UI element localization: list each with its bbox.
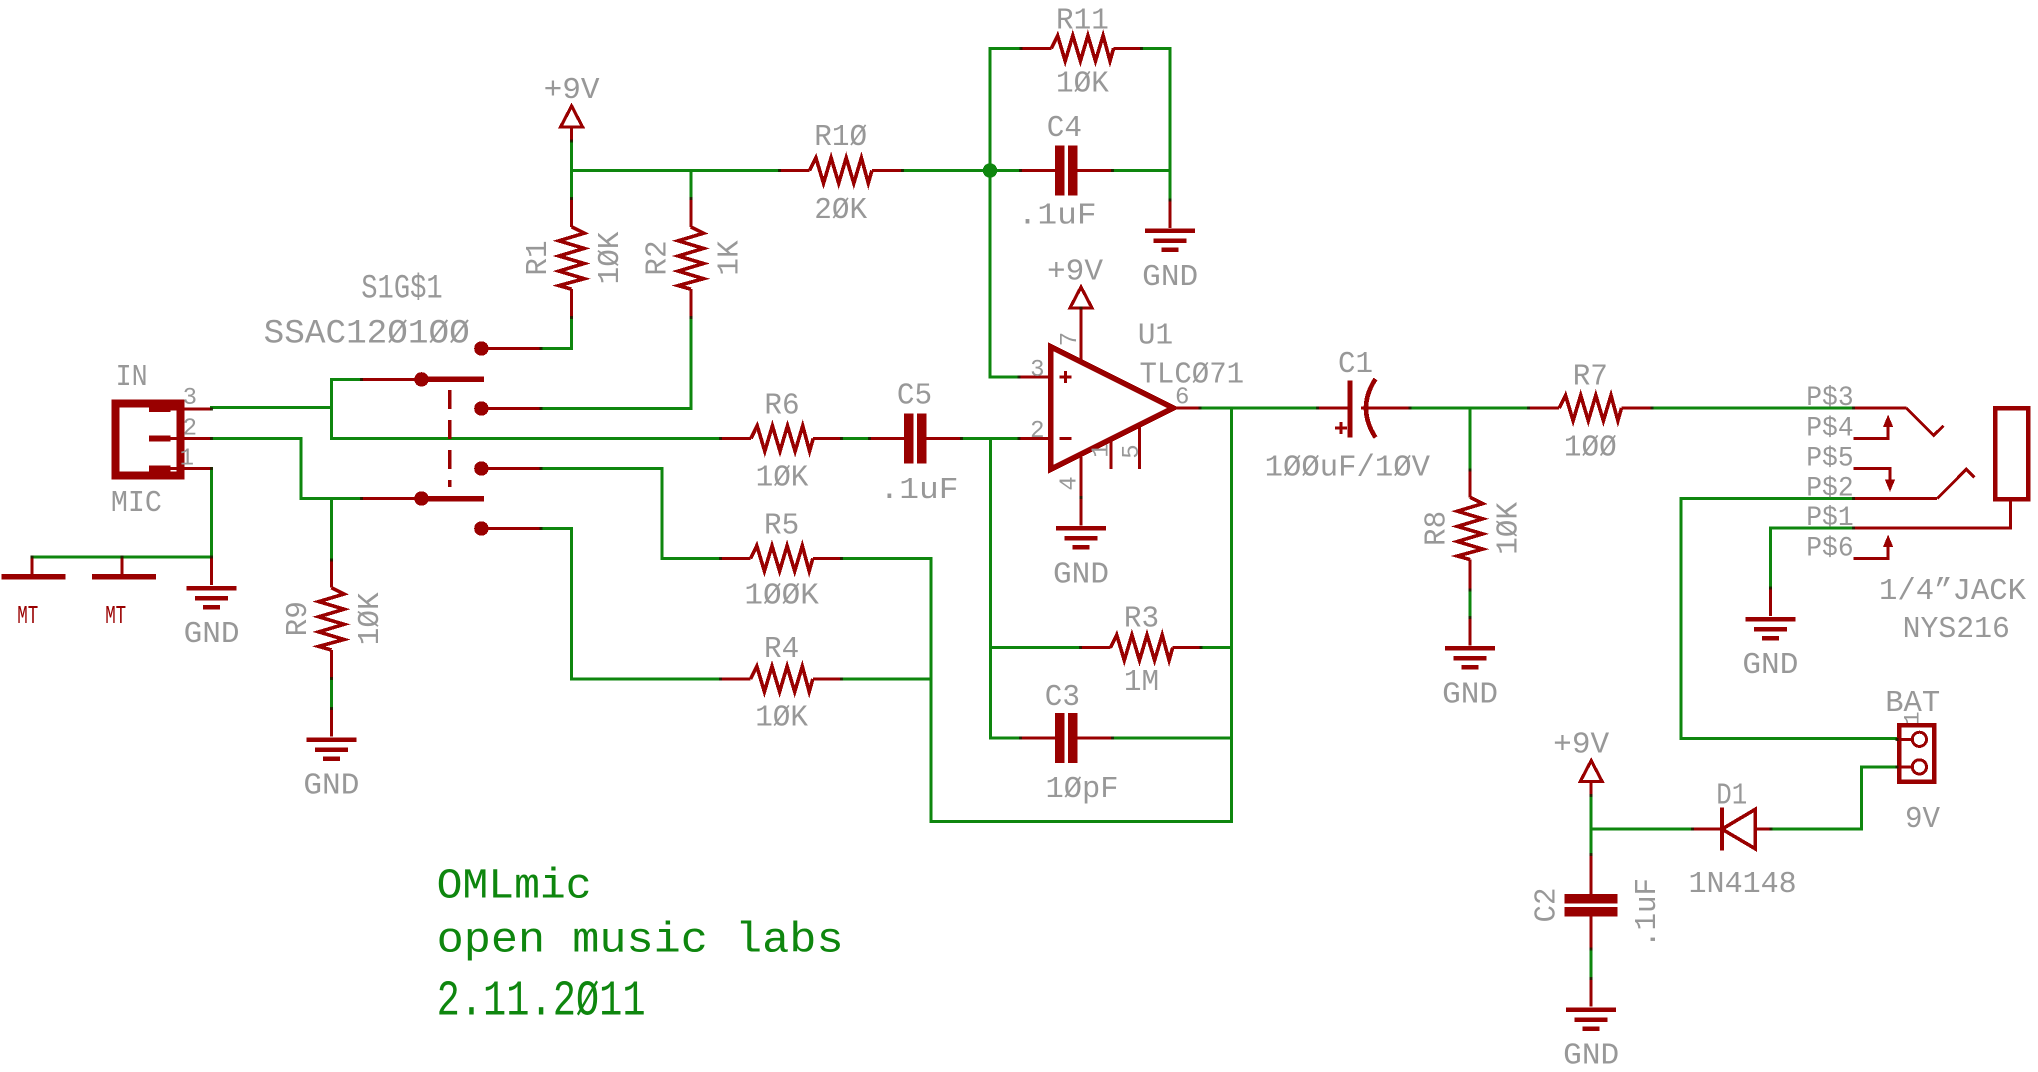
connector 1/4" jack NYS216 — [1854, 408, 2029, 647]
wire R4 right — [842, 678, 931, 681]
wire to C3 left — [991, 737, 1021, 740]
ground GND at MIC — [184, 557, 240, 652]
capacitor C2 — [1531, 855, 1665, 950]
supply +9V top left — [544, 74, 601, 141]
svg-text:C3: C3 — [1045, 681, 1080, 715]
svg-text:TLCØ71: TLCØ71 — [1140, 358, 1245, 392]
wire to R3 left — [991, 646, 1081, 649]
resistor R1 — [522, 199, 628, 318]
svg-text:C2: C2 — [1531, 888, 1565, 923]
wire +9V bus to R10 — [572, 169, 780, 172]
wire R6 to C5 — [842, 437, 870, 440]
resistor R7 — [1528, 361, 1652, 466]
svg-text:2.11.2Ø11: 2.11.2Ø11 — [437, 974, 646, 1031]
svg-text:P$5: P$5 — [1806, 443, 1853, 474]
svg-text:R1Ø: R1Ø — [814, 121, 867, 155]
wire C5 to op-amp pin2 — [961, 437, 1019, 440]
wire junction to C4 left — [990, 169, 1020, 172]
svg-text:P$3: P$3 — [1806, 383, 1853, 414]
svg-text:7: 7 — [1057, 332, 1084, 346]
wire bus drop to R2 top — [689, 171, 692, 199]
junction node at R10/R11/C4 — [983, 163, 997, 177]
svg-text:1N4148: 1N4148 — [1689, 868, 1797, 902]
ground GND jack P$1 — [1742, 588, 1798, 683]
wire C3 right — [1113, 737, 1232, 740]
ground GND op-amp pin4 — [1053, 497, 1109, 592]
svg-text:MT: MT — [17, 601, 38, 631]
wire +9V to R1 top — [570, 141, 573, 199]
connector IN MIC — [111, 361, 212, 521]
svg-text:R8: R8 — [1421, 511, 1455, 546]
svg-text:1: 1 — [1901, 711, 1926, 724]
svg-text:R5: R5 — [764, 510, 799, 544]
wire R5 right — [842, 557, 931, 560]
svg-text:P$6: P$6 — [1806, 533, 1853, 564]
wire R11 right down to GND — [1141, 48, 1170, 200]
ground GND below R9 — [303, 709, 359, 804]
wire C2 bottom to GND — [1590, 949, 1593, 979]
wire +9V node vertical — [1590, 796, 1593, 855]
svg-text:1ØK: 1ØK — [1056, 67, 1109, 101]
supply +9V op-amp pin7 — [1047, 256, 1104, 364]
svg-text:GND: GND — [1053, 558, 1109, 592]
ground GND below C4 — [1142, 200, 1198, 295]
wire R6 row left — [331, 437, 720, 440]
wire contact1 to R1 bottom — [541, 317, 572, 348]
svg-text:1K: 1K — [713, 240, 747, 276]
battery connector BAT 9V — [1885, 687, 1940, 837]
mount MT1 — [2, 557, 66, 631]
svg-text:R11: R11 — [1056, 5, 1109, 39]
wire D1 anode to +9V node — [1591, 828, 1692, 831]
svg-text:1: 1 — [180, 445, 194, 472]
resistor R10 — [780, 121, 903, 228]
svg-text:1ØK: 1ØK — [755, 701, 808, 735]
svg-text:P$4: P$4 — [1806, 413, 1853, 444]
capacitor C4 — [1018, 112, 1113, 234]
svg-text:U1: U1 — [1138, 319, 1174, 353]
svg-text:1ØØuF/1ØV: 1ØØuF/1ØV — [1265, 452, 1431, 486]
svg-text:C4: C4 — [1047, 112, 1082, 146]
wire MIC pin2 to pole2 — [212, 439, 362, 499]
op-amp U1 TLC071 — [1019, 347, 1200, 498]
wire R7 to jack P$3 — [1652, 407, 1854, 410]
wire to R8 top — [1469, 408, 1472, 470]
svg-text:1ØK: 1ØK — [1493, 501, 1527, 554]
wire R5/R4 right vertical — [929, 558, 932, 821]
svg-text:GND: GND — [1142, 261, 1198, 295]
svg-text:1ØØ: 1ØØ — [1564, 432, 1617, 466]
resistor R9 — [282, 560, 388, 679]
svg-text:1M: 1M — [1124, 666, 1159, 700]
capacitor C1 — [1265, 348, 1431, 486]
wire MIC pin1 to ground rail — [32, 468, 212, 557]
svg-text:SSAC12Ø1ØØ: SSAC12Ø1ØØ — [264, 315, 470, 353]
svg-text:R2: R2 — [641, 240, 675, 275]
svg-text:MIC: MIC — [111, 487, 162, 521]
svg-text:GND: GND — [1563, 1040, 1619, 1072]
wire to switch pole1 — [331, 378, 361, 381]
wire R9 bottom to GND — [330, 679, 333, 709]
wire contact3 to R5 — [541, 469, 662, 559]
wire junction down to op-amp pin3 — [990, 171, 1019, 378]
wire R8 bottom to GND — [1469, 590, 1472, 617]
wire inverting node riser — [989, 439, 992, 739]
svg-text:R1: R1 — [522, 240, 556, 275]
wire contact4 to R4 — [541, 529, 721, 680]
wire op-amp out to C1 — [1200, 407, 1318, 410]
wire MIC pin3 to riser — [212, 406, 332, 409]
svg-text:IN: IN — [116, 361, 148, 395]
svg-text:2ØK: 2ØK — [814, 194, 867, 228]
svg-text:5: 5 — [1119, 444, 1146, 458]
svg-text:R3: R3 — [1124, 603, 1159, 637]
wire feedback bottom rail — [931, 820, 1232, 823]
capacitor C5 — [869, 380, 961, 509]
svg-text:P$1: P$1 — [1806, 503, 1853, 534]
svg-text:C5: C5 — [897, 380, 932, 414]
wire to R11 left pin — [990, 47, 1021, 50]
svg-text:1ØØK: 1ØØK — [744, 580, 819, 614]
svg-text:GND: GND — [303, 770, 359, 804]
svg-text:4: 4 — [1057, 476, 1084, 490]
svg-text:MT: MT — [105, 601, 126, 631]
wire to R9 top — [330, 499, 333, 561]
svg-text:.1uF: .1uF — [1018, 199, 1097, 233]
wire C1 to R7 — [1410, 407, 1528, 410]
resistor R11 — [1021, 5, 1141, 102]
svg-text:open music labs: open music labs — [437, 916, 844, 965]
svg-text:1ØK: 1ØK — [594, 231, 628, 284]
resistor R6 — [721, 390, 842, 496]
svg-text:1ØK: 1ØK — [354, 592, 388, 645]
svg-text:1/4”JACK: 1/4”JACK — [1879, 575, 2027, 609]
wire output drop to feedback rail — [1230, 408, 1233, 821]
wire R5 left — [662, 557, 721, 560]
svg-text:9V: 9V — [1905, 803, 1941, 837]
resistor R5 — [721, 510, 842, 614]
svg-text:R7: R7 — [1573, 361, 1608, 395]
svg-text:1ØK: 1ØK — [756, 462, 809, 496]
resistor R3 — [1081, 603, 1201, 701]
resistor R2 — [641, 199, 747, 318]
svg-text:GND: GND — [1442, 678, 1498, 712]
svg-text:D1: D1 — [1716, 780, 1747, 814]
svg-text:6: 6 — [1175, 385, 1189, 412]
svg-text:P$2: P$2 — [1806, 474, 1853, 505]
mount MT2 — [92, 557, 156, 631]
svg-text:2: 2 — [183, 415, 197, 442]
pin endpoint dots — [540, 347, 543, 350]
resistor R4 — [721, 633, 842, 735]
svg-text:GND: GND — [184, 618, 240, 652]
wire C4 right — [1113, 169, 1171, 172]
svg-text:R4: R4 — [764, 633, 799, 667]
resistor R8 — [1421, 470, 1527, 590]
svg-text:R6: R6 — [764, 390, 799, 424]
svg-text:GND: GND — [1742, 649, 1798, 683]
svg-text:S1G$1: S1G$1 — [361, 271, 442, 309]
switch S1G$1 SSAC120100 — [264, 271, 541, 536]
svg-text:1ØpF: 1ØpF — [1046, 773, 1119, 807]
svg-text:+9V: +9V — [544, 74, 601, 108]
ground GND below R8 — [1442, 617, 1498, 712]
capacitor C3 — [1020, 681, 1118, 807]
wire contact2 to R2 bottom — [541, 317, 691, 408]
wire riser pole1 to R6 row — [330, 379, 333, 438]
wire R10 to junction — [902, 169, 990, 172]
svg-text:1: 1 — [1089, 443, 1116, 457]
svg-text:R9: R9 — [282, 601, 316, 636]
wire junction up to R11 left — [989, 48, 992, 170]
svg-text:NYS216: NYS216 — [1903, 613, 2010, 647]
svg-text:.1uF: .1uF — [880, 474, 959, 508]
svg-text:+9V: +9V — [1047, 256, 1104, 290]
svg-text:3: 3 — [1030, 357, 1044, 384]
svg-text:+9V: +9V — [1553, 729, 1610, 763]
svg-text:2: 2 — [1030, 418, 1044, 445]
svg-text:OMLmic: OMLmic — [437, 862, 592, 911]
wire R3 right — [1201, 646, 1232, 649]
svg-text:3: 3 — [183, 385, 197, 412]
diode D1 1N4148 — [1689, 780, 1797, 903]
wire jack P$1 to GND — [1770, 528, 1853, 588]
svg-text:C1: C1 — [1338, 348, 1373, 382]
ground GND below C2 — [1563, 979, 1619, 1072]
svg-text:.1uF: .1uF — [1631, 878, 1665, 948]
wire BAT pin2 to D1 — [1771, 767, 1897, 829]
wire jack P$2 to BAT pin1 — [1681, 499, 1897, 739]
supply +9V battery node — [1553, 729, 1610, 796]
